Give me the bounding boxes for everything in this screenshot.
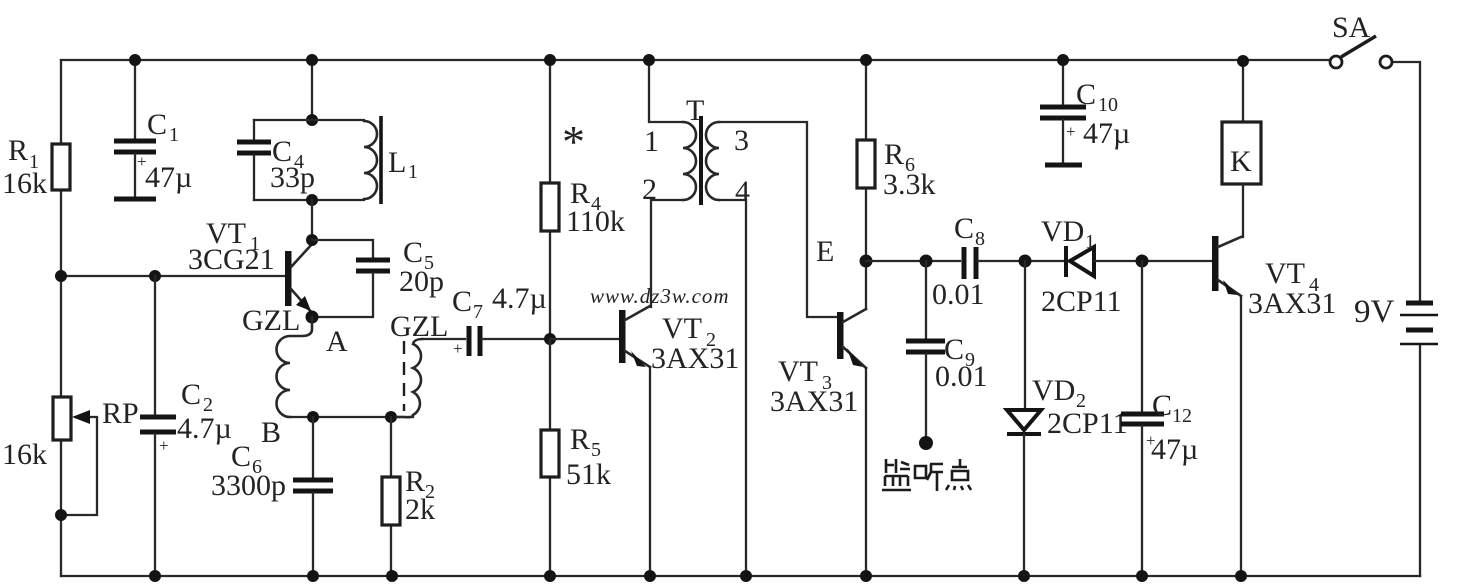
capacitor C4 (237, 120, 271, 200)
diode VD1 2CP11 (1066, 246, 1213, 277)
svg-text:4.7µ: 4.7µ (177, 412, 232, 445)
svg-text:T: T (686, 94, 704, 127)
svg-text:SA: SA (1332, 11, 1371, 44)
junction dot C10 top (1057, 54, 1069, 66)
label SA (1332, 11, 1371, 44)
node: tank bottom junction (306, 194, 318, 206)
transformer T core (699, 116, 703, 205)
transistor VT3 3AX31 (837, 261, 866, 576)
label R5 51k (566, 423, 611, 491)
junction dot C1 top (129, 54, 141, 66)
junction dot R4 top (544, 54, 556, 66)
capacitor C9 (906, 261, 945, 438)
svg-text:12: 12 (1172, 405, 1192, 427)
label GZL right (390, 310, 448, 343)
junction dot C9 top (920, 255, 933, 268)
svg-text:B: B (261, 416, 281, 449)
inductor L1 (364, 116, 381, 204)
svg-text:4.7µ: 4.7µ (492, 282, 547, 315)
crystal coil GZL right with dashed core (397, 339, 422, 417)
label node B (261, 416, 281, 449)
svg-text:2CP11: 2CP11 (1041, 285, 1122, 318)
svg-text:2: 2 (642, 173, 657, 206)
label L1 (388, 146, 418, 183)
svg-text:C: C (452, 285, 472, 318)
label C12 47u (1151, 389, 1198, 466)
label pin 2 (642, 173, 657, 206)
svg-text:0.01: 0.01 (935, 360, 988, 393)
junction dot tank feed (306, 54, 318, 66)
svg-text:1: 1 (1085, 231, 1095, 253)
junction dot bottom T pin4 (740, 570, 752, 582)
transistor VT1 3CG21 (285, 243, 313, 314)
node: collector junction (306, 234, 318, 246)
junction dot bottom R5 (544, 570, 556, 582)
label C9 0.01 (935, 333, 988, 393)
svg-text:8: 8 (975, 228, 985, 250)
label VT2 3AX31 (651, 312, 739, 375)
label pin 4 (735, 175, 750, 208)
switch SA (1330, 36, 1392, 68)
junction dot RP wiper (55, 509, 67, 521)
junction dot left rail base line (55, 270, 67, 282)
svg-text:51k: 51k (566, 458, 611, 491)
junction dot T primary top (643, 54, 655, 66)
transformer T primary (649, 60, 696, 307)
label node E (816, 235, 834, 268)
capacitor C5 loop (312, 240, 390, 317)
junction dot bottom VT4 emitter (1235, 570, 1247, 582)
svg-text:3300p: 3300p (211, 469, 286, 502)
svg-text:*: * (562, 116, 585, 167)
junction dot VD1 left (1019, 255, 1032, 268)
svg-text:+: + (159, 436, 169, 455)
junction dot bottom R2 (386, 570, 398, 582)
label R2 2k (405, 465, 435, 526)
label C6 3300p (211, 440, 286, 502)
svg-text:2k: 2k (405, 493, 435, 526)
svg-text:RP: RP (102, 397, 139, 430)
svg-text:1: 1 (644, 125, 659, 158)
label C7 4.7u (452, 282, 547, 323)
label VD2 2CP11 (1032, 374, 1128, 440)
svg-text:47µ: 47µ (1083, 117, 1130, 150)
label GZL left (242, 304, 300, 337)
node A (306, 311, 319, 324)
wire: left rail vertical (60, 60, 62, 576)
capacitor C6 (293, 417, 333, 576)
label pin 1 (644, 125, 659, 158)
svg-text:3AX31: 3AX31 (651, 342, 739, 375)
node: E junction (860, 255, 873, 268)
resistor R6 (857, 60, 875, 261)
node: tank top junction (306, 114, 318, 126)
watermark www.dz3w.com (590, 284, 730, 308)
label VD1 2CP11 (1041, 215, 1122, 318)
svg-text:16k: 16k (2, 167, 47, 200)
junction dot VD1 right / C12 top (1136, 255, 1149, 268)
svg-text:VT: VT (1265, 257, 1305, 290)
capacitor C2 (140, 276, 176, 576)
svg-text:2CP11: 2CP11 (1047, 407, 1128, 440)
label R1 16k (2, 134, 47, 200)
label C8 0.01 (932, 212, 985, 311)
svg-text:3CG21: 3CG21 (188, 243, 275, 276)
capacitor C1 (114, 60, 156, 199)
svg-text:33p: 33p (270, 161, 315, 194)
transistor VT4 3AX31 (1212, 236, 1241, 576)
svg-text:3: 3 (734, 124, 749, 157)
svg-text:3AX31: 3AX31 (1248, 287, 1336, 320)
wire: tank top (254, 119, 364, 121)
svg-text:GZL: GZL (242, 304, 300, 337)
capacitor C12 (1121, 261, 1164, 576)
label VT4 3AX31 (1248, 257, 1336, 320)
svg-text:20p: 20p (399, 265, 444, 298)
label C2 4.7u (177, 378, 232, 445)
svg-text:C: C (181, 378, 201, 411)
wire: GZL bottom line (290, 416, 413, 418)
svg-text:1: 1 (408, 161, 418, 183)
svg-text:16k: 16k (2, 438, 47, 471)
crystal coil GZL left (277, 317, 313, 417)
label node A (326, 325, 348, 358)
svg-text:R: R (884, 138, 904, 171)
svg-text:L: L (388, 146, 406, 179)
node: monitor terminal dot (919, 436, 933, 450)
junction dot bottom C12 (1136, 570, 1148, 582)
wire: bottom ground rail (61, 575, 1420, 577)
svg-text:110k: 110k (566, 205, 625, 238)
junction dot R6 top (860, 54, 872, 66)
svg-text:E: E (816, 235, 834, 268)
svg-text:0.01: 0.01 (932, 278, 985, 311)
junction dot bottom VD2 (1018, 570, 1030, 582)
svg-text:47µ: 47µ (1151, 433, 1198, 466)
junction dot bottom VT3 emitter (860, 570, 872, 582)
capacitor C10 (1040, 60, 1086, 165)
label VT1 3CG21 (188, 217, 275, 276)
resistor R4 (541, 60, 559, 339)
svg-text:3AX31: 3AX31 (770, 385, 858, 418)
node: VT2 base junction (544, 333, 556, 345)
svg-text:1: 1 (169, 124, 179, 146)
svg-text:R: R (8, 134, 28, 167)
wire: battery bottom to bottom rail (1419, 345, 1421, 576)
svg-text:47µ: 47µ (145, 161, 192, 194)
wire: base line from left rail to VT1 (61, 275, 286, 277)
label C5 20p (399, 236, 444, 298)
label R4 110k (566, 177, 625, 238)
svg-text:A: A (326, 325, 348, 358)
svg-text:+: + (453, 339, 463, 358)
label T (686, 94, 704, 127)
svg-text:R: R (570, 423, 590, 456)
svg-text:9V: 9V (1354, 294, 1395, 330)
svg-text:C: C (1076, 78, 1096, 111)
relay K (1222, 60, 1261, 237)
svg-text:C: C (147, 108, 167, 141)
svg-text:3.3k: 3.3k (883, 168, 936, 201)
svg-text:VT: VT (778, 355, 818, 388)
label pin 3 (734, 124, 749, 157)
capacitor C8 (964, 247, 1066, 279)
junction dot C6 top (307, 411, 319, 423)
label C4 33p (270, 135, 315, 194)
label RP 16k (2, 438, 47, 471)
svg-text:7: 7 (473, 301, 483, 323)
label star (562, 116, 585, 167)
wire: tank feed from rail (311, 60, 313, 120)
wire: tank bottom (254, 199, 364, 201)
label C1 47u (145, 108, 192, 194)
label 9V (1354, 294, 1395, 330)
label R6 3.3k (883, 138, 936, 201)
potentiometer RP (53, 397, 97, 515)
wire: E node line to C8 (866, 260, 960, 262)
label monitor point (Chinese) (882, 459, 971, 491)
wire: top supply rail (61, 59, 1330, 61)
svg-text:10: 10 (1098, 94, 1118, 116)
svg-text:4: 4 (735, 175, 750, 208)
junction dot bottom C6 (307, 570, 319, 582)
junction dot bottom VT2 emitter (644, 570, 656, 582)
resistor R2 (382, 417, 400, 576)
svg-text:VD: VD (1041, 215, 1084, 248)
svg-text:K: K (1230, 145, 1252, 178)
svg-text:www.dz3w.com: www.dz3w.com (590, 284, 730, 308)
wire: tank to collector (311, 200, 313, 240)
capacitor C7 electrolytic (422, 326, 550, 358)
junction dot C2 top (149, 270, 161, 282)
junction dot R2 top (385, 411, 397, 423)
wire: VT2 base (550, 338, 620, 340)
label C10 47u (1076, 78, 1130, 150)
transformer T secondary (706, 122, 838, 576)
junction dot bottom C2 (149, 570, 161, 582)
resistor R1 (52, 144, 70, 190)
resistor R5 (541, 339, 559, 576)
transistor VT2 3AX31 (619, 306, 650, 576)
wire: right rail from switch to battery top (1391, 62, 1420, 300)
junction dot K top (1237, 55, 1249, 67)
svg-text:C: C (954, 212, 974, 245)
diode VD2 2CP11 (1007, 261, 1041, 576)
svg-text:VD: VD (1032, 374, 1075, 407)
svg-text:C: C (1152, 389, 1172, 422)
label VT3 3AX31 (770, 355, 858, 418)
svg-text:VT: VT (662, 312, 702, 345)
label RP (102, 397, 139, 430)
svg-text:+: + (1066, 122, 1076, 141)
battery 9V (1400, 303, 1438, 344)
